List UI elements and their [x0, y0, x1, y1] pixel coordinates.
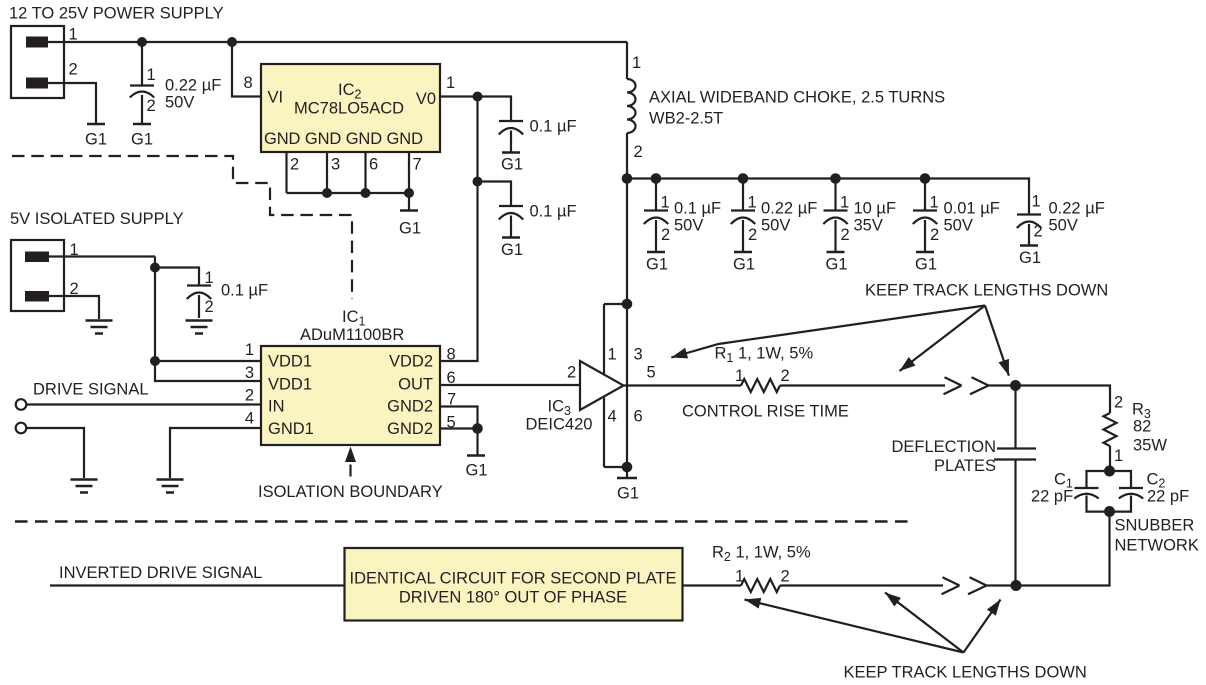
ground G1 (lower bypass cap)	[501, 238, 523, 260]
svg-text:IN: IN	[268, 398, 285, 416]
svg-text:DRIVE SIGNAL: DRIVE SIGNAL	[33, 381, 149, 399]
wire: block to R2	[683, 584, 742, 586]
svg-text:MC78LO5ACD: MC78LO5ACD	[294, 100, 404, 118]
wire: mid rail (bypass bank)	[627, 179, 1029, 215]
capacitor 0.1uF bypass (upper)	[478, 97, 524, 153]
capacitor 10uF 35V (bank 3)	[823, 179, 847, 252]
svg-text:0.22 µF: 0.22 µF	[1049, 200, 1105, 218]
wire: IC1 GND2 pin 7	[440, 407, 478, 429]
svg-text:35V: 35V	[854, 217, 883, 235]
connector J2 (5V isolated supply)	[11, 240, 64, 311]
svg-text:GND2: GND2	[387, 420, 433, 438]
node: junction top rail at IC2 VI branch	[227, 37, 237, 47]
label: AXIAL WIDEBAND CHOKE, 2.5 TURNS / WB2-2.5T	[649, 89, 945, 128]
svg-text:CONTROL RISE TIME: CONTROL RISE TIME	[682, 403, 849, 421]
svg-text:1: 1	[840, 194, 849, 212]
pin labels (bank 3)	[840, 194, 850, 245]
svg-text:DRIVEN 180° OUT OF PHASE: DRIVEN 180° OUT OF PHASE	[399, 589, 627, 607]
node: junction GND2	[472, 423, 483, 434]
svg-text:NETWORK: NETWORK	[1115, 537, 1199, 555]
wire: IC2 GND pin 6	[364, 152, 366, 193]
svg-text:1: 1	[748, 194, 757, 212]
svg-text:22 pF: 22 pF	[1147, 488, 1189, 506]
capacitor 0.22uF 50V (input)	[130, 42, 154, 123]
svg-text:5: 5	[647, 364, 656, 382]
svg-text:G1: G1	[825, 256, 847, 274]
wire: R2 to chevrons (bottom)	[780, 584, 943, 586]
wire: top rail corner down to choke	[626, 42, 628, 79]
svg-text:1: 1	[69, 26, 78, 44]
svg-text:2: 2	[147, 97, 156, 115]
wire: IC3 pin4 rail stub bottom	[604, 466, 627, 468]
svg-text:DEIC420: DEIC420	[526, 416, 593, 434]
svg-text:50V: 50V	[165, 94, 194, 112]
op IC2 MC78LO5ACD body	[261, 64, 440, 152]
svg-text:1: 1	[147, 66, 156, 84]
node: junction mid rail cap4	[920, 173, 931, 184]
svg-text:2: 2	[205, 298, 214, 316]
value label: 0.22 uF 50V (bank 2)	[761, 200, 817, 235]
svg-text:2: 2	[781, 568, 790, 586]
wire: VCC vertical into IC3	[626, 179, 628, 468]
label: SNUBBER NETWORK	[1115, 517, 1199, 555]
svg-text:G1: G1	[131, 131, 153, 149]
node: drive signal input terminal (open circle)	[16, 399, 27, 410]
svg-text:2: 2	[634, 143, 643, 161]
value label: 0.01 uF 50V (bank 4)	[944, 200, 1000, 235]
wire: IC1 OUT pin 6 to IC3 input	[440, 384, 580, 386]
node: junction lower track	[1011, 580, 1022, 591]
ground G1 (IC2 bus)	[399, 193, 421, 238]
chevron marks (bottom wire)	[942, 577, 987, 594]
node: junction VDD1 at 0.1uF cap	[150, 263, 160, 273]
node: junction IC3 ground pins	[622, 462, 633, 473]
ground G1 (bank 3)	[825, 252, 847, 274]
node: junction mid rail cap3	[830, 173, 841, 184]
svg-text:IDENTICAL CIRCUIT FOR SECOND P: IDENTICAL CIRCUIT FOR SECOND PLATE	[350, 570, 677, 588]
ground G1 (upper bypass cap)	[501, 153, 523, 174]
svg-text:50V: 50V	[761, 217, 790, 235]
svg-text:1: 1	[1032, 193, 1041, 211]
svg-text:ISOLATION BOUNDARY: ISOLATION BOUNDARY	[258, 483, 443, 501]
isolation boundary dashed line (upper)	[12, 156, 352, 299]
svg-text:5V ISOLATED SUPPLY: 5V ISOLATED SUPPLY	[10, 210, 184, 228]
svg-text:3: 3	[245, 364, 254, 382]
svg-text:82: 82	[1133, 418, 1151, 436]
label: R3 82 35W	[1132, 401, 1167, 455]
svg-text:1: 1	[1114, 447, 1123, 465]
isolation boundary arrow	[345, 447, 356, 477]
svg-text:GND GND GND GND: GND GND GND GND	[264, 130, 423, 148]
pin labels (bank 4)	[930, 194, 940, 245]
pin labels (bank 5)	[1032, 193, 1043, 241]
svg-text:3: 3	[331, 156, 340, 174]
node: junction VDD2 at V0	[473, 92, 483, 102]
wire: drive input to IC1 IN pin 2	[27, 403, 262, 405]
svg-text:4: 4	[608, 408, 617, 426]
svg-text:0.1 µF: 0.1 µF	[530, 203, 577, 221]
node: junction GND bus pin7	[404, 188, 414, 198]
capacitor 0.22uF 50V (bank 5)	[1017, 215, 1041, 246]
svg-text:G1: G1	[1019, 249, 1041, 267]
svg-text:VI: VI	[268, 89, 284, 107]
arrow: keep-track to junction	[985, 306, 1009, 376]
svg-text:INVERTED DRIVE SIGNAL: INVERTED DRIVE SIGNAL	[59, 564, 262, 582]
capacitor C1 22pF	[1074, 488, 1098, 499]
svg-text:OUT: OUT	[398, 376, 433, 394]
wire: IC2 GND pin 3	[326, 152, 328, 193]
ground G1 (IC3)	[617, 467, 639, 503]
ground (5V cap earth)	[186, 321, 213, 334]
connector J1 (12-25V power supply)	[11, 26, 64, 98]
wire: VDD2 vertical net (IC2 output down to IC1 VDD2)	[440, 97, 478, 362]
wire: plate node down to deflection plate	[1014, 386, 1016, 449]
svg-text:1: 1	[930, 194, 939, 212]
wire: J2 pin2 to earth ground	[49, 296, 99, 319]
svg-text:G1: G1	[501, 241, 523, 259]
node: junction VDD2 at second bypass cap	[473, 177, 483, 187]
svg-text:4: 4	[245, 410, 254, 428]
svg-text:2: 2	[841, 226, 850, 244]
value label: 10 uF 35V (bank 3)	[854, 200, 897, 235]
svg-text:G1: G1	[501, 156, 523, 174]
wire: rail to IC2 VI pin 8	[232, 42, 261, 97]
node: junction mid rail at choke	[622, 173, 633, 184]
capacitor 0.01uF 50V (bank 4)	[913, 179, 937, 252]
svg-text:G1: G1	[733, 256, 755, 274]
svg-text:1: 1	[608, 346, 617, 364]
svg-text:50V: 50V	[674, 217, 703, 235]
label: DEFLECTION PLATES	[891, 438, 996, 475]
chevron marks (top wire)	[944, 377, 989, 394]
svg-text:ADuM1100BR: ADuM1100BR	[300, 326, 404, 344]
svg-text:22 pF: 22 pF	[1031, 488, 1073, 506]
svg-text:50V: 50V	[944, 217, 973, 235]
capacitor 0.1uF bypass (lower)	[478, 182, 524, 238]
pin labels (bank 2)	[748, 194, 758, 245]
svg-text:WB2-2.5T: WB2-2.5T	[649, 110, 723, 128]
capacitor 0.22uF 50V (bank 2)	[731, 179, 755, 252]
svg-text:1: 1	[661, 194, 670, 212]
ground (GND1 earth)	[157, 480, 184, 493]
resistor R3	[1104, 413, 1117, 446]
svg-text:G1: G1	[399, 220, 421, 238]
label: IDENTICAL CIRCUIT FOR SECOND PLATE / DRIVEN 180 OUT OF PHASE	[350, 570, 677, 607]
node: junction GND bus pin6	[361, 188, 371, 198]
node: junction GND bus pin3	[322, 188, 332, 198]
svg-text:AXIAL WIDEBAND CHOKE, 2.5 TURN: AXIAL WIDEBAND CHOKE, 2.5 TURNS	[649, 89, 945, 107]
svg-text:1: 1	[735, 367, 744, 385]
arrow: keep-track to R2	[745, 600, 964, 653]
svg-text:G1: G1	[465, 462, 487, 480]
arrow: keep-track to track (middle)	[900, 306, 986, 372]
wire: bottom plate down to lower junction	[1014, 460, 1016, 586]
svg-text:2: 2	[930, 226, 939, 244]
svg-text:10 µF: 10 µF	[854, 200, 897, 218]
wire: snubber bottom to lower track	[1016, 512, 1110, 586]
wire: IC2 GND pin 2	[285, 152, 287, 193]
wire: snubber loop top	[1087, 471, 1132, 488]
node: junction deflection plate (top)	[1010, 380, 1021, 391]
ground G1 (bank 1)	[646, 252, 668, 274]
pin labels (bank 1)	[661, 194, 671, 245]
svg-text:6: 6	[634, 408, 643, 426]
op-amp IC3 DEIC420 driver triangle	[580, 361, 624, 410]
svg-text:2: 2	[748, 226, 757, 244]
value label: 0.22 uF 50V (bank 5)	[1049, 200, 1105, 235]
svg-text:0.1 µF: 0.1 µF	[221, 282, 268, 300]
svg-text:2: 2	[290, 156, 299, 174]
wire: J1 pin1 to top rail	[48, 41, 627, 43]
wire: J2 pin1 to VDD1 node	[49, 255, 155, 257]
svg-text:8: 8	[244, 74, 253, 92]
wire: IC1 GND1 pin 4 to earth ground	[170, 428, 261, 478]
svg-text:2: 2	[661, 226, 670, 244]
wire: IC3 pin1 rail stub top	[604, 303, 627, 305]
inductor L1 axial wideband choke	[627, 79, 636, 133]
node: junction IC3 VCC pins	[622, 299, 633, 310]
wire: R3 to snubber	[1109, 446, 1111, 471]
svg-text:3: 3	[634, 346, 643, 364]
ground G1 (bank 5)	[1019, 246, 1041, 268]
deflection plate (top)	[997, 447, 1036, 449]
svg-text:0.22 µF: 0.22 µF	[165, 77, 221, 95]
ground (drive return earth)	[71, 480, 98, 493]
node: junction snubber bottom	[1104, 506, 1115, 517]
wire: R1 to chevrons	[780, 384, 945, 386]
wire: IC1 GND2 pin 5	[440, 427, 478, 429]
svg-text:GND1: GND1	[268, 420, 314, 438]
svg-text:1: 1	[245, 341, 254, 359]
node: junction mid rail cap2	[738, 173, 749, 184]
svg-text:0.01 µF: 0.01 µF	[944, 200, 1000, 218]
wire: VDD1 vertical net	[155, 257, 261, 382]
svg-text:2: 2	[1034, 223, 1043, 241]
ground G1 (bank 4)	[915, 252, 937, 274]
svg-text:KEEP TRACK LENGTHS DOWN: KEEP TRACK LENGTHS DOWN	[865, 282, 1108, 300]
svg-text:1: 1	[632, 54, 641, 72]
ground G1 (input cap)	[131, 124, 153, 149]
svg-text:2: 2	[567, 364, 576, 382]
svg-text:2: 2	[781, 367, 790, 385]
capacitor 0.1uF (5V side)	[155, 268, 211, 319]
capacitor C2 22pF	[1119, 488, 1143, 499]
value label: 0.1 uF 50V (bank 1)	[674, 200, 721, 235]
svg-text:VDD1: VDD1	[268, 353, 312, 371]
wire: IC3 pin1/pin4 rail vertical	[603, 304, 605, 467]
svg-text:DEFLECTION: DEFLECTION	[891, 438, 996, 456]
wire: VDD1 to IC1 pin 1	[155, 360, 261, 362]
svg-text:0.22 µF: 0.22 µF	[761, 200, 817, 218]
svg-text:1: 1	[735, 568, 744, 586]
svg-text:G1: G1	[85, 131, 107, 149]
ground G1 (bank 2)	[733, 252, 755, 274]
svg-text:GND2: GND2	[387, 398, 433, 416]
wire: inverted drive input to block	[50, 584, 344, 586]
svg-text:G1: G1	[646, 256, 668, 274]
svg-text:12 TO 25V POWER SUPPLY: 12 TO 25V POWER SUPPLY	[9, 5, 224, 23]
wire: IC2 ground bus	[287, 192, 410, 194]
value label: 0.22 uF 50V	[165, 77, 221, 112]
ground G1 (IC1 GND2)	[465, 429, 487, 480]
wire: IC2 GND pin 7	[408, 152, 410, 193]
svg-text:KEEP TRACK LENGTHS DOWN: KEEP TRACK LENGTHS DOWN	[844, 664, 1087, 682]
svg-text:VDD2: VDD2	[389, 353, 433, 371]
arrow: keep-track to track (bottom middle)	[885, 593, 964, 653]
block: identical circuit for second plate	[345, 548, 683, 621]
arrow: keep-track to R1	[671, 306, 985, 358]
isolation dashed separator (lower)	[15, 520, 910, 523]
wire: chevrons to plate node and R3 corner	[989, 386, 1111, 414]
op IC1 ADuM1100BR body	[261, 346, 440, 445]
wire: J1 pin2 to ground G1	[48, 83, 96, 123]
node: drive return terminal (open circle)	[16, 423, 27, 434]
svg-text:G1: G1	[617, 485, 639, 503]
svg-text:SNUBBER: SNUBBER	[1115, 517, 1195, 535]
ground G1 (J1 pin2)	[85, 124, 107, 149]
svg-text:0.1 µF: 0.1 µF	[530, 118, 577, 136]
ground (J2 pin2 earth)	[86, 321, 113, 334]
resistor R2	[741, 579, 780, 592]
node: junction top rail at input cap	[137, 37, 147, 47]
svg-text:35W: 35W	[1133, 437, 1167, 455]
deflection plate (bottom)	[994, 458, 1036, 460]
node: junction mid rail cap1	[651, 173, 662, 184]
svg-text:2: 2	[245, 387, 254, 405]
svg-text:1: 1	[446, 74, 455, 92]
arrow: keep-track to bottom junction	[964, 600, 1001, 653]
svg-text:VDD1: VDD1	[268, 376, 312, 394]
node: junction VDD1 at pin 1	[150, 356, 160, 366]
svg-text:50V: 50V	[1049, 217, 1078, 235]
svg-text:V0: V0	[416, 90, 436, 108]
svg-text:6: 6	[369, 156, 378, 174]
svg-text:0.1 µF: 0.1 µF	[674, 200, 721, 218]
svg-text:2: 2	[69, 61, 78, 79]
wire: choke to mid rail	[626, 133, 628, 179]
capacitor 0.1uF 50V (bank 1)	[644, 179, 668, 252]
wire: snubber loop bottom	[1087, 496, 1132, 512]
wire: IC3 output to R1	[624, 384, 742, 386]
svg-text:8: 8	[447, 346, 456, 364]
svg-text:2: 2	[1114, 394, 1123, 412]
wire: chevrons to bottom junction	[987, 584, 1017, 586]
wire: drive return to earth ground	[27, 428, 85, 478]
svg-text:7: 7	[413, 156, 422, 174]
node: junction snubber top	[1104, 466, 1115, 477]
svg-text:G1: G1	[915, 256, 937, 274]
svg-text:PLATES: PLATES	[934, 457, 996, 475]
wire: IC2 V0 pin 1 to VDD2 net	[440, 95, 478, 97]
svg-text:1: 1	[205, 269, 214, 287]
resistor R1	[741, 379, 780, 392]
